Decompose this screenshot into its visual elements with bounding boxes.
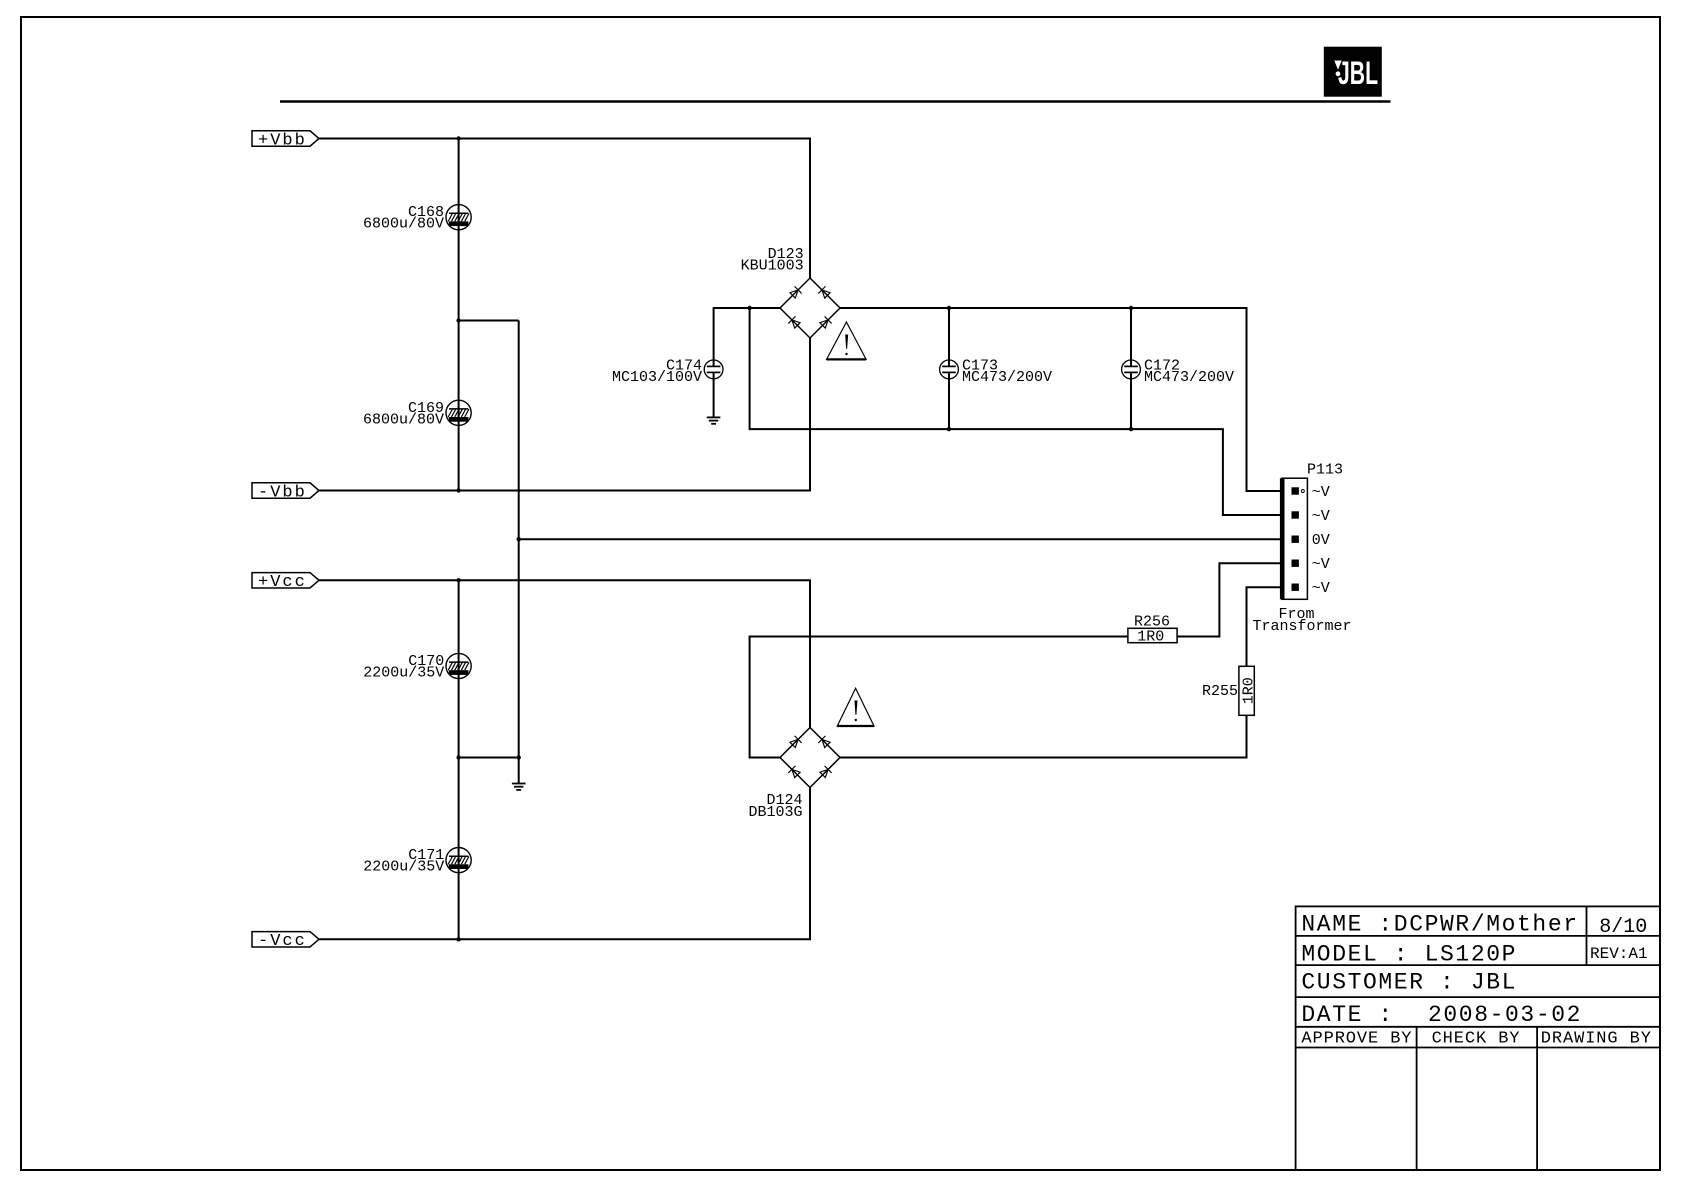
wire +Vcc rail to D124 top [319, 580, 810, 727]
wire x1-x2 bridge at 320.5 [459, 320, 519, 322]
junction 0V vertical at ground tee [517, 755, 521, 759]
warning triangle near D124 [837, 688, 874, 726]
warning triangle near D123 [827, 322, 867, 359]
wire 0V net to P113 pin3 [519, 538, 1292, 540]
svg-text:1R0: 1R0 [1240, 677, 1257, 704]
svg-text:2200u/35V: 2200u/35V [363, 859, 444, 876]
capacitor C171 [363, 847, 471, 876]
svg-text:CUSTOMER : JBL: CUSTOMER : JBL [1301, 969, 1517, 995]
svg-text:DRAWING BY: DRAWING BY [1541, 1030, 1652, 1049]
svg-text:-Vcc: -Vcc [258, 932, 307, 951]
svg-text:NAME :DCPWR/Mother: NAME :DCPWR/Mother [1301, 911, 1578, 937]
node +Vbb tag [252, 131, 319, 151]
junction on +Vcc at C170 branch [456, 578, 460, 582]
svg-text:1R0: 1R0 [1137, 628, 1164, 645]
svg-text:MC473/200V: MC473/200V [1144, 369, 1234, 386]
svg-text:MODEL : LS120P: MODEL : LS120P [1301, 942, 1517, 968]
JBL logo [1324, 47, 1382, 97]
wire ground tee at 757.5 [459, 757, 519, 759]
svg-text:6800u/80V: 6800u/80V [363, 411, 444, 428]
svg-text:2008-03-02: 2008-03-02 [1428, 1002, 1582, 1028]
junction on -Vbb at C169 [456, 488, 460, 492]
wire node x1 lower vertical [458, 580, 460, 939]
svg-text:0V: 0V [1312, 532, 1330, 549]
capacitor C173 [940, 358, 1052, 386]
junction C170/C171 midpoint to ground tee [456, 755, 460, 759]
wire D123 bottom to -Vbb rail [319, 338, 810, 491]
capacitor C170 [363, 653, 471, 682]
svg-text:KBU1003: KBU1003 [741, 257, 804, 274]
junction on +Vbb at C168 branch [456, 136, 460, 140]
svg-text:DB103G: DB103G [748, 804, 802, 821]
wire -Vcc rail to D124 bottom [319, 788, 810, 940]
junction on -Vcc at C171 [456, 937, 460, 941]
junction C174 branch on D123 left wire [747, 306, 751, 310]
wire R255 bottom to D124 right vertex [840, 715, 1247, 757]
wire C173 stems [948, 308, 950, 366]
svg-text:~V: ~V [1312, 580, 1330, 597]
wire C174 stem lower to ground [713, 372, 715, 417]
wire AC bottom: junction to P113 pin2 [750, 308, 1292, 515]
node -Vbb tag [252, 483, 319, 503]
svg-text:~V: ~V [1312, 556, 1330, 573]
bridge rectifier D123 [741, 246, 840, 338]
svg-text:REV:A1: REV:A1 [1590, 945, 1648, 963]
capacitor C168 [363, 204, 471, 233]
junction 0V vertical to P113 pin3 wire [517, 537, 521, 541]
svg-text:CHECK BY: CHECK BY [1432, 1030, 1521, 1049]
ground on 0V rail [512, 784, 526, 790]
wire C172 stems [1130, 308, 1132, 366]
wire 0V vertical x2 [518, 321, 520, 784]
svg-text:P113: P113 [1307, 462, 1343, 479]
svg-text:~V: ~V [1312, 484, 1330, 501]
node -Vcc tag [252, 932, 319, 952]
capacitor C174 [612, 358, 723, 386]
svg-text:MC473/200V: MC473/200V [962, 369, 1052, 386]
capacitor C169 [363, 400, 471, 429]
svg-text:8/10: 8/10 [1599, 916, 1647, 939]
node +Vcc tag [252, 573, 319, 593]
svg-text:MC103/100V: MC103/100V [612, 369, 702, 386]
svg-text:-Vbb: -Vbb [258, 483, 307, 502]
resistor R256 [1128, 614, 1177, 646]
wire node x1 upper vertical [458, 139, 460, 491]
capacitor C172 [1122, 358, 1234, 386]
top separator line [280, 100, 1391, 103]
svg-text:R255: R255 [1202, 683, 1238, 700]
svg-text:DATE :: DATE : [1301, 1002, 1393, 1028]
svg-text:Transformer: Transformer [1252, 618, 1351, 635]
junction C172 top [1129, 306, 1133, 310]
ground below C174 [707, 417, 721, 423]
svg-text:APPROVE BY: APPROVE BY [1301, 1030, 1412, 1049]
title block [1296, 906, 1660, 1170]
svg-text:JBL: JBL [1338, 55, 1378, 91]
svg-text:~V: ~V [1312, 508, 1330, 525]
wire P113 pin5 to R255 top [1247, 587, 1293, 666]
wire C174 stem upper [713, 308, 715, 366]
svg-text:+Vbb: +Vbb [258, 131, 307, 150]
svg-text:2200u/35V: 2200u/35V [363, 665, 444, 682]
connector P113 [1252, 462, 1351, 636]
wire C174 top link [713, 307, 780, 309]
wire AC top: D123 right to P113 pin1 [840, 308, 1292, 491]
junction C173 top [947, 306, 951, 310]
wire P113 pin4 to R256 [1177, 563, 1292, 636]
resistor R255 [1202, 666, 1257, 715]
wire +Vbb rail to D123 top [319, 139, 810, 279]
wire R256 to D124 left vertex [750, 637, 1128, 758]
svg-text:+Vcc: +Vcc [258, 573, 307, 592]
bridge rectifier D124 [748, 728, 840, 821]
junction C173 bottom [947, 427, 951, 431]
title block text [1301, 911, 1651, 1048]
svg-text:6800u/80V: 6800u/80V [363, 216, 444, 233]
junction C168/C169 midpoint to 0V branch [456, 318, 460, 322]
junction C172 bottom [1129, 427, 1133, 431]
